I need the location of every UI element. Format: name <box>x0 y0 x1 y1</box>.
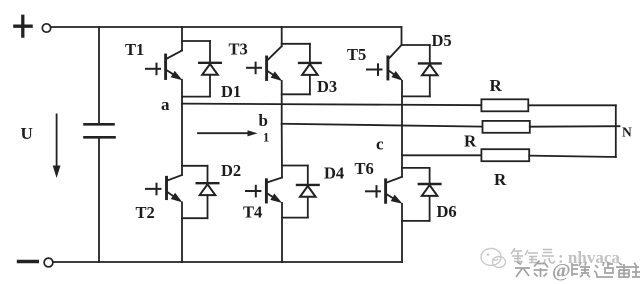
svg-text:D5: D5 <box>432 31 452 50</box>
wire: left leg lower (T2 emitter to bottom rail) <box>181 202 183 262</box>
svg-text:c: c <box>376 135 384 154</box>
arrow: current direction into phase b <box>198 130 258 136</box>
arrow: U voltage direction <box>53 114 61 178</box>
svg-text:R: R <box>464 132 477 151</box>
diode D6 <box>402 168 457 221</box>
svg-text:D1: D1 <box>221 82 241 101</box>
svg-text:@: @ <box>552 260 571 282</box>
svg-text:N: N <box>622 125 632 140</box>
svg-text:D6: D6 <box>437 202 457 221</box>
watermark line2: toutiao name <box>515 261 548 278</box>
resistor R2 (phase b) <box>464 121 530 151</box>
svg-text:a: a <box>161 95 170 114</box>
svg-text:R: R <box>490 76 503 95</box>
resistor R1 (phase a) <box>481 76 528 111</box>
diode D2 <box>182 161 241 218</box>
wire: left leg to T2 collector <box>181 104 183 175</box>
wire: middle leg middle (T3 emitter to node b) <box>281 81 283 124</box>
diode D1 <box>182 41 241 101</box>
resistor R3 (phase c) <box>481 149 529 189</box>
wire: capacitor branch upper <box>98 27 100 124</box>
wire: middle leg lower (T4 emitter to bottom rail) <box>281 203 283 262</box>
diode D4 <box>282 164 344 218</box>
wire: phase line c <box>402 154 482 156</box>
wire: left leg middle (T1 emitter to node a) <box>181 80 183 104</box>
wire: phase line a <box>182 104 482 106</box>
wire: middle leg to T4 collector <box>281 124 283 178</box>
- terminal <box>19 260 38 263</box>
wire: right leg to T6 collector <box>401 156 403 177</box>
diode D5 <box>402 31 452 96</box>
transistor T1 <box>125 40 183 80</box>
wire: top DC rail <box>51 26 402 28</box>
wire: right leg lower (T6 emitter to bottom rail) <box>401 204 403 262</box>
wire: R3 to node N <box>529 156 616 157</box>
transistor T3 <box>229 40 283 82</box>
wire: bottom DC rail <box>54 261 403 263</box>
wire: left leg upper (T1 collector feed) <box>181 27 183 51</box>
svg-text:U: U <box>21 124 33 143</box>
wire: neutral bus vertical <box>615 105 617 157</box>
wire: right leg middle (T5 emitter to node c) <box>401 81 403 156</box>
capacitor C <box>85 124 115 137</box>
svg-text:1: 1 <box>263 131 269 145</box>
wire: R1 to node N <box>528 104 616 106</box>
svg-text:T3: T3 <box>229 40 248 59</box>
svg-text:T5: T5 <box>347 45 366 64</box>
svg-text:T4: T4 <box>243 203 262 222</box>
wire: phase line b <box>282 124 483 127</box>
svg-text:R: R <box>494 170 507 189</box>
wire: capacitor branch lower <box>98 137 100 262</box>
+ terminal <box>15 16 31 36</box>
svg-text:T1: T1 <box>125 40 144 59</box>
svg-text:D4: D4 <box>324 164 344 183</box>
transistor T2 <box>136 175 183 222</box>
watermark line1: wechat id <box>511 248 555 265</box>
transistor T6 <box>355 159 403 204</box>
wire: R2 to node N <box>530 125 620 128</box>
svg-text:T2: T2 <box>136 203 155 222</box>
svg-text:b: b <box>259 111 268 130</box>
watermark logo <box>481 249 506 268</box>
positive terminal circle <box>42 24 50 32</box>
wire: middle leg upper (T3 collector feed) <box>281 27 283 46</box>
negative terminal circle <box>44 258 53 267</box>
transistor T5 <box>347 45 403 81</box>
wire: right leg upper (top rail corner into T5) <box>401 27 403 45</box>
svg-text:D2: D2 <box>221 161 241 180</box>
diode D3 <box>282 44 337 96</box>
svg-text:T6: T6 <box>355 159 374 178</box>
svg-text:D3: D3 <box>317 77 337 96</box>
transistor T4 <box>243 178 282 222</box>
